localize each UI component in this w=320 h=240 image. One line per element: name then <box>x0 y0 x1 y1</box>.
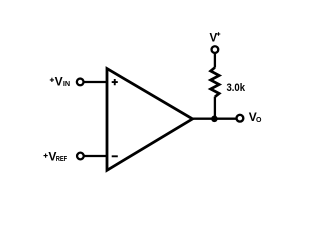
wire output <box>192 118 236 120</box>
svg-text:IN: IN <box>63 81 70 88</box>
node +VIN label plus <box>50 78 54 82</box>
terminal V+ <box>212 46 219 53</box>
terminal +VREF <box>77 153 84 160</box>
op-amp plus input marker <box>112 79 118 85</box>
op-amp minus input marker <box>112 155 118 157</box>
wire V+ to resistor <box>214 53 216 68</box>
node +VREF label plus <box>44 154 48 158</box>
svg-text:3.0k: 3.0k <box>227 82 246 94</box>
wire +VIN input <box>84 81 107 83</box>
terminal +VIN <box>77 79 84 86</box>
label V+ superscript plus <box>217 32 221 36</box>
terminal VO <box>237 115 244 122</box>
junction node VO <box>211 116 218 123</box>
wire resistor to output node <box>214 97 216 119</box>
svg-text:REF: REF <box>56 156 68 163</box>
resistor R1 3.0k <box>211 68 220 97</box>
svg-text:V: V <box>55 75 63 89</box>
wire +VREF input <box>84 155 107 157</box>
svg-text:V: V <box>210 33 218 45</box>
svg-text:O: O <box>256 117 262 124</box>
op-amp U1 <box>107 69 193 171</box>
